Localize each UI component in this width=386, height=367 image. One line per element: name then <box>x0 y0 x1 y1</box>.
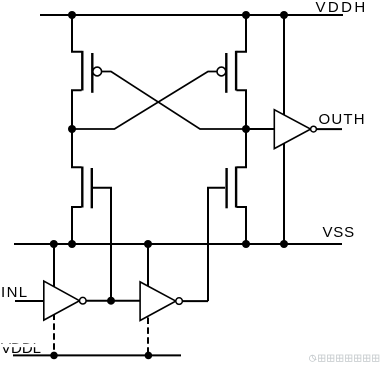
svg-text:VSS: VSS <box>323 224 355 241</box>
svg-text:INL: INL <box>1 284 29 301</box>
svg-text:VDDH: VDDH <box>316 0 368 16</box>
svg-text:OUTH: OUTH <box>319 111 366 128</box>
svg-text:VDDL: VDDL <box>1 340 41 357</box>
